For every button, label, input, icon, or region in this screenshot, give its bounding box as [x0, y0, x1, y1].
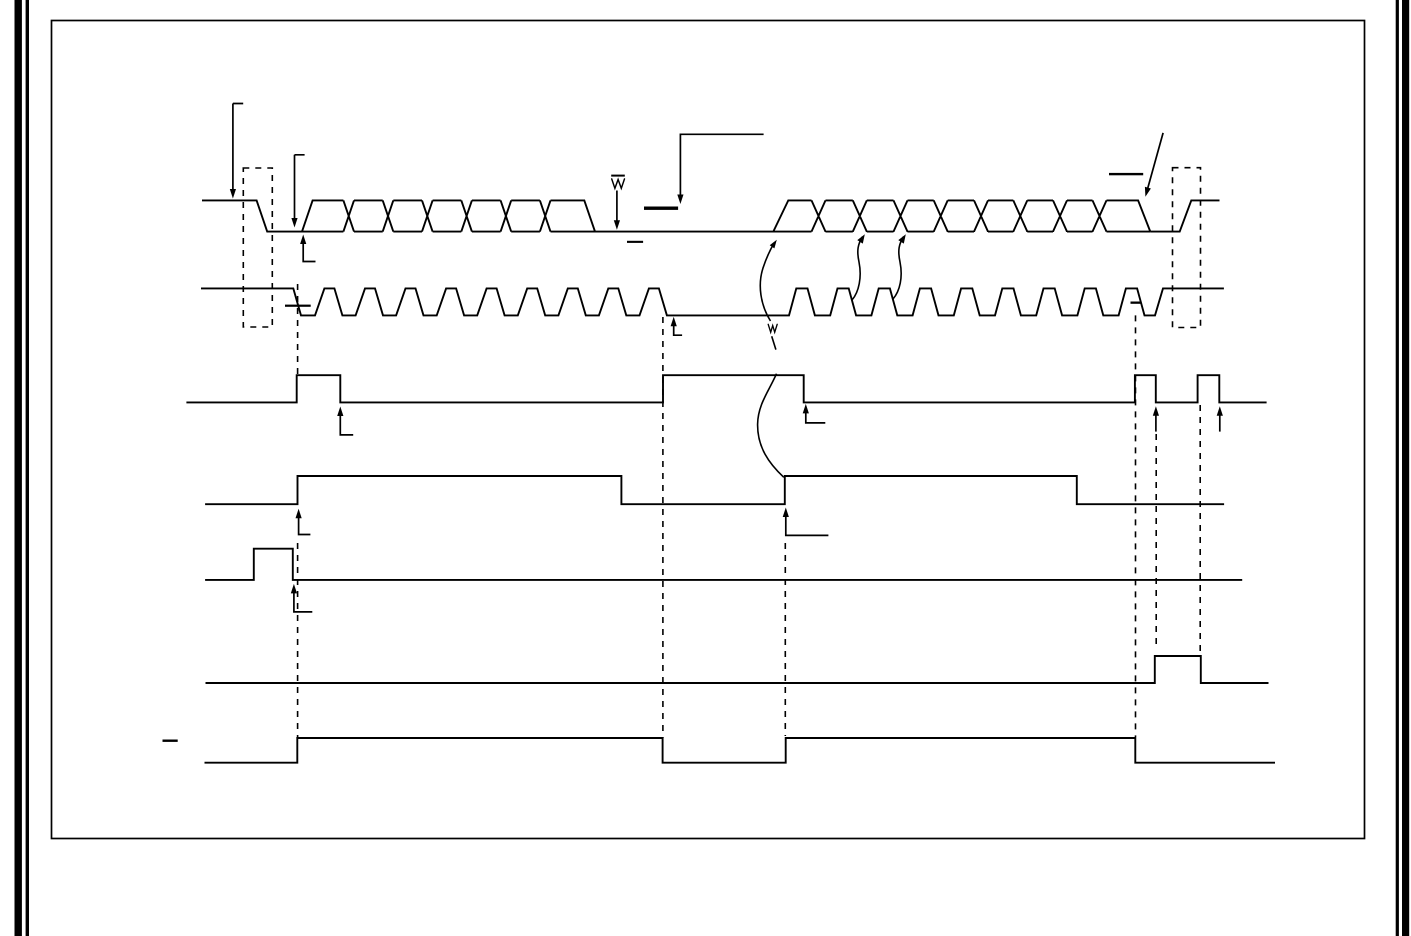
dashed sampling box right [1173, 168, 1201, 328]
waveform row6: flag line with pulse [206, 656, 1269, 683]
curved leader from w label up to bus rise [760, 243, 774, 322]
dashed sampling box left [243, 168, 272, 327]
waveform row5: start pulse [205, 549, 1242, 580]
diagonal arrow into bus fall top right [1148, 133, 1163, 188]
left page border thin rule [26, 0, 29, 936]
wire: bus row1 group2 end converge [1107, 200, 1151, 231]
dashed timing line x=1200.2 [1199, 405, 1201, 653]
down arrow t2 into bus low [295, 155, 305, 218]
up arrow at clock resume [674, 326, 682, 336]
down arrow t1 into bus high [233, 104, 243, 190]
up arrow below row3 pulse2 fall [1155, 416, 1157, 432]
waveform row7: busy signal [205, 738, 1276, 763]
elbow arrow from top into mid-level bar [680, 134, 763, 194]
tick across first clock fall [285, 305, 311, 307]
dashed timing line at first clock fall x=297.6 [297, 284, 299, 737]
squiggle arrow 1 clock-fall to bus low [852, 237, 863, 300]
w annotation label [768, 324, 777, 332]
thick mid-level reference bar (left of elbow arrow) [644, 207, 678, 210]
up arrow at row4 first rise [299, 518, 311, 535]
wire: bus row1 first rise [302, 200, 343, 231]
dashed timing line at last clock fall x=1135.5 [1135, 315, 1137, 737]
up arrow below row3 pulse3 fall [1219, 416, 1221, 432]
up arrow at row4 second rise [786, 517, 829, 536]
wire: bus row1 right low/rise/high end [1150, 200, 1219, 231]
up arrow after row3 pulse1 [340, 416, 353, 435]
W-bar signal label [611, 175, 625, 177]
curved leader from w label down to row4 rise [772, 336, 776, 349]
up arrow after row3 mid fall [806, 413, 826, 423]
short dash label mark under bus low (right of W arrow) [627, 241, 643, 243]
dashed timing line at restart x=785.3 [784, 543, 786, 736]
waveform row3: strobe pulses [186, 375, 1266, 402]
waveform row4: output enable [205, 476, 1224, 504]
tick across last clock fall [1131, 302, 1142, 304]
wire: bus row1 group1 end converge [551, 200, 596, 231]
W-bar label down arrow [616, 191, 618, 221]
dashed timing line x=1156.2 [1155, 434, 1157, 648]
thick reference bar left of diagonal arrow [1109, 173, 1143, 175]
right page border thick rule [1402, 0, 1409, 936]
wire: bus row1 long low + rise [595, 200, 812, 231]
bus row1 group1 X crossings [343, 200, 550, 231]
bus row1 group2 X crossings [812, 200, 1107, 231]
left page border thick rule [15, 0, 22, 936]
right page border thin rule [1396, 0, 1399, 936]
up arrow after row5 pulse [294, 593, 312, 612]
dashed timing line at clock stop x=662.9 [662, 317, 664, 738]
waveform row2: clock [201, 288, 1224, 315]
dash label mark bottom left (row7) [163, 740, 178, 742]
wire: bus row1 start high/fall/low [202, 200, 343, 231]
squiggle arrow 2 clock-fall to bus low [893, 237, 904, 299]
up arrow t3 below bus low [303, 243, 315, 262]
